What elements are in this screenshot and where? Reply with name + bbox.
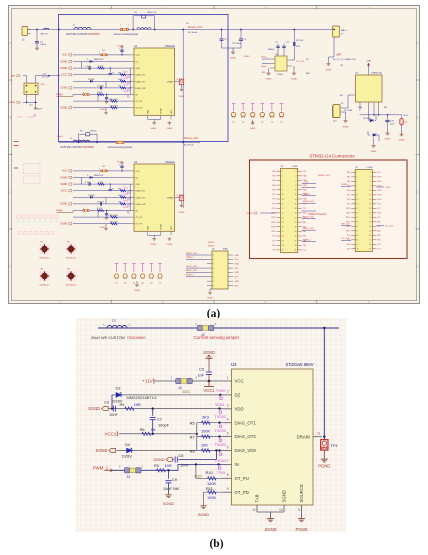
svg-text:2: 2 [296, 171, 297, 173]
svg-text:(b): (b) [209, 538, 223, 550]
svg-text:PC6: PC6 [272, 236, 275, 238]
svg-text:R10: R10 [206, 470, 214, 475]
svg-text:28: 28 [369, 231, 371, 233]
wire DIAG_VD8 row with zener D4 [116, 450, 222, 452]
svg-text:20: 20 [369, 213, 371, 215]
svg-text:PC7: PC7 [303, 208, 306, 210]
svg-text:PGND: PGND [167, 128, 173, 130]
svg-text:3: 3 [282, 176, 283, 178]
svg-text:6: 6 [370, 181, 371, 183]
svg-text:SGND: SGND [198, 512, 210, 517]
svg-text:SWCLK: SWCLK [208, 246, 215, 248]
svg-text:PA3: PA3 [272, 184, 275, 187]
svg-text:2: 2 [128, 25, 129, 27]
net label Shunt+_Ch1 [188, 26, 203, 34]
svg-text:24: 24 [369, 222, 371, 224]
svg-text:TVD02: TVD02 [123, 78, 129, 80]
svg-text:PB14: PB14 [271, 226, 275, 228]
svg-text:25: 25 [282, 227, 284, 229]
net arrow +BAT above buck [367, 63, 370, 66]
svg-text:31: 31 [282, 240, 284, 242]
svg-text:NL_Shunt2: NL_Shunt2 [184, 144, 193, 147]
test points TP8-TP13 row [114, 264, 162, 293]
wire DZ row [112, 394, 223, 396]
svg-text:PB13: PB13 [271, 222, 275, 224]
svg-text:15: 15 [282, 203, 284, 205]
net label Shunt+_Ch2 [184, 137, 199, 147]
svg-text:SGND: SGND [153, 457, 165, 462]
port and wire to PS1 input [10, 74, 27, 83]
svg-text:19: 19 [282, 213, 284, 215]
svg-text:VCC1: VCC1 [61, 190, 68, 193]
resistor R11 100K [206, 486, 216, 500]
svg-text:OT_PD: OT_PD [235, 490, 249, 495]
svg-text:PA1: PA1 [347, 176, 350, 179]
svg-text:TP1: TP1 [331, 443, 339, 448]
svg-text:8: 8 [370, 186, 371, 188]
svg-text:PB13: PB13 [377, 190, 381, 192]
svg-text:27: 27 [356, 231, 358, 233]
inductor L1 panel b [103, 319, 131, 329]
svg-text:B: B [417, 115, 419, 119]
power port VCC1 below wire [203, 381, 215, 393]
svg-text:PB12: PB12 [271, 217, 275, 219]
svg-text:10nF: 10nF [109, 412, 118, 417]
shunt sense loop R1 channel 1 [132, 12, 156, 30]
svg-text:M3 Mount: M3 Mount [40, 257, 50, 260]
svg-text:SGND: SGND [282, 490, 287, 502]
svg-text:22: 22 [369, 217, 371, 219]
svg-text:16: 16 [295, 203, 297, 205]
connector J8 STM32 header [271, 166, 307, 253]
svg-text:C4: C4 [275, 42, 277, 44]
svg-text:+11V: +11V [62, 170, 68, 173]
svg-text:10R: 10R [165, 463, 172, 468]
svg-text:OT_PU: OT_PU [136, 217, 143, 219]
svg-text:PB10: PB10 [303, 176, 307, 178]
svg-text:PWM_1: PWM_1 [93, 465, 109, 470]
svg-text:DZ: DZ [235, 393, 241, 398]
connector J6 debug header [207, 249, 233, 289]
svg-text:+11V: +11V [42, 74, 47, 76]
svg-text:8: 8 [296, 185, 297, 187]
svg-text:CONN: CONN [292, 166, 298, 168]
svg-text:NL_7V_TO_CONNECTOR: NL_7V_TO_CONNECTOR [333, 59, 356, 61]
port and wire PS1 ground side [9, 94, 43, 110]
svg-text:D3: D3 [116, 386, 121, 391]
svg-text:16: 16 [369, 204, 371, 206]
svg-text:Current sensing jumper: Current sensing jumper [114, 33, 139, 36]
svg-text:13: 13 [356, 199, 358, 201]
svg-text:18: 18 [369, 208, 371, 210]
svg-text:SGND: SGND [385, 139, 391, 141]
junction and suppressor on IN row [215, 459, 226, 470]
svg-text:DZ1: DZ1 [195, 473, 203, 478]
svg-text:SGND: SGND [266, 79, 272, 81]
svg-text:DIAG_OT1: DIAG_OT1 [235, 420, 257, 425]
svg-text:VDD: VDD [136, 184, 141, 186]
svg-text:6: 6 [296, 180, 297, 182]
svg-text:4: 4 [213, 268, 214, 270]
svg-text:15: 15 [356, 204, 358, 206]
svg-text:13: 13 [282, 199, 284, 201]
svg-text:PC6: PC6 [347, 235, 350, 237]
svg-text:PB0: PB0 [377, 240, 380, 242]
panel b grid background [76, 318, 346, 532]
ferrite bead FB1 [41, 28, 49, 36]
wire OT_PD row [204, 491, 223, 493]
wire OT_PU row [196, 477, 223, 479]
svg-text:3: 3 [227, 404, 229, 408]
svg-text:34: 34 [295, 245, 297, 247]
svg-text:SGND: SGND [60, 176, 67, 179]
svg-text:J4: J4 [178, 386, 182, 390]
svg-text:DIAG_VD8: DIAG_VD8 [136, 87, 147, 90]
decoupling caps above op-amp [275, 42, 289, 57]
svg-text:PB12: PB12 [303, 185, 307, 187]
svg-text:MISO_CH1: MISO_CH1 [186, 270, 198, 272]
svg-text:VDD: VDD [235, 406, 244, 411]
schematic sheet border panel a [9, 6, 420, 304]
wire IN row [113, 464, 223, 470]
svg-text:5: 5 [213, 272, 214, 274]
svg-text:CONN: CONN [367, 167, 373, 169]
svg-text:100K: 100K [201, 429, 210, 434]
wire sense tap 2 with label [292, 29, 305, 63]
svg-text:R8: R8 [190, 448, 196, 453]
svg-text:PA2: PA2 [272, 179, 275, 182]
svg-text:7: 7 [227, 459, 229, 463]
svg-text:C14: C14 [29, 105, 32, 107]
svg-text:9: 9 [227, 487, 229, 491]
svg-text:C 10nF: C 10nF [85, 182, 92, 184]
svg-text:D DZ8V: D DZ8V [88, 79, 95, 81]
svg-text:TAB: TAB [255, 494, 260, 502]
wire VCC row [155, 380, 223, 382]
port SGND on C8 row [153, 457, 172, 462]
resistor R7 100K [190, 429, 211, 440]
svg-text:26: 26 [369, 226, 371, 228]
micro labels around U1 [83, 45, 129, 107]
svg-text:30: 30 [295, 236, 297, 238]
svg-text:34: 34 [369, 244, 371, 246]
svg-text:PC6: PC6 [377, 204, 380, 206]
svg-text:100nF: 100nF [277, 74, 283, 76]
svg-text:10nF NM: 10nF NM [163, 486, 179, 491]
grounds below op-amp U3 [266, 66, 298, 81]
svg-text:SGND: SGND [100, 109, 106, 111]
svg-text:R11 100K: R11 100K [110, 105, 119, 107]
svg-text:MMSZ5233: MMSZ5233 [94, 175, 103, 177]
faint rule directives left margin [17, 114, 59, 235]
wire drain vertical panel b [323, 327, 325, 437]
svg-text:100nF: 100nF [40, 44, 47, 46]
svg-text:SOURCE: SOURCE [299, 484, 304, 503]
svg-text:C7: C7 [157, 416, 162, 421]
svg-text:SGND: SGND [246, 213, 253, 215]
gate driver IC U1 [129, 45, 175, 120]
svg-text:11: 11 [356, 195, 358, 197]
svg-text:OT_PU: OT_PU [136, 101, 143, 103]
svg-text:4: 4 [227, 418, 229, 422]
svg-text:J: J [99, 169, 100, 171]
svg-text:PC5: PC5 [347, 204, 350, 206]
wire pullup bus vertical [196, 423, 198, 451]
svg-text:SGND: SGND [291, 79, 297, 81]
svg-text:SRC: SRC [171, 109, 173, 114]
svg-text:3K3: 3K3 [118, 72, 121, 74]
op-amp U3 current sense amplifier [262, 54, 292, 71]
svg-text:SCLK_CH1: SCLK_CH1 [186, 266, 198, 268]
test point TP1 [321, 437, 339, 450]
svg-text:PB0: PB0 [272, 189, 275, 191]
svg-text:17: 17 [356, 208, 358, 210]
net label TVD03 and suppressor [215, 443, 226, 456]
svg-text:22uF: 22uF [390, 124, 395, 126]
svg-text:GND: GND [235, 255, 240, 257]
svg-text:SGND: SGND [264, 527, 276, 532]
svg-text:5: 5 [356, 181, 357, 183]
wire PS1 output +11V [36, 74, 61, 84]
STM32-G4 Connectors red box [250, 160, 408, 259]
svg-text:L1: L1 [112, 319, 116, 323]
svg-text:Shunt+_Ch1: Shunt+_Ch1 [188, 26, 203, 29]
port PWM_1 [93, 465, 113, 472]
svg-text:OT_PD: OT_PD [136, 224, 143, 226]
svg-text:PB11: PB11 [377, 181, 381, 183]
svg-text:NL_Shunt1: NL_Shunt1 [188, 31, 197, 34]
svg-text:MMSZ5233BT1G: MMSZ5233BT1G [127, 395, 157, 400]
svg-text:R10 100K: R10 100K [110, 99, 119, 101]
svg-text:SGND: SGND [151, 128, 157, 130]
svg-text:SGND: SGND [151, 244, 157, 246]
wire DIAG_OT2 row [197, 436, 223, 438]
wire channel-2 battery rail [59, 141, 200, 143]
ground symbols below U2 [148, 235, 173, 246]
svg-text:100nF: 100nF [37, 109, 43, 111]
wires into debug connector J6 [186, 253, 239, 300]
junction at drain pin [323, 436, 325, 438]
jumper J4 [176, 378, 193, 389]
svg-text:20uH WE CUSTOM: 20uH WE CUSTOM [91, 336, 125, 340]
svg-text:R 10R: R 10R [98, 66, 104, 68]
svg-text:22: 22 [295, 217, 297, 219]
svg-text:PB15: PB15 [346, 231, 350, 233]
buck regulator IC U4 [352, 60, 383, 107]
svg-text:IN: IN [235, 462, 239, 467]
svg-text:PA0: PA0 [347, 171, 350, 174]
svg-text:PC4: PC4 [303, 250, 306, 252]
svg-text:PC7: PC7 [272, 240, 275, 242]
svg-text:TAB: TAB [146, 109, 149, 113]
svg-text:R 10R: R 10R [98, 182, 104, 184]
isolated DC-DC module PS1 [24, 83, 46, 94]
svg-text:7: 7 [282, 185, 283, 187]
svg-text:0R005: 0R005 [91, 131, 98, 133]
svg-text:PA2: PA2 [347, 180, 350, 183]
svg-text:M3 Mount: M3 Mount [66, 284, 76, 287]
svg-text:+3V3: +3V3 [303, 181, 309, 183]
svg-text:OT_PD: OT_PD [136, 108, 143, 110]
svg-text:D: D [417, 264, 419, 268]
svg-text:VCC1: VCC1 [203, 388, 215, 393]
svg-text:TVD03: TVD03 [215, 443, 226, 447]
svg-text:PC4: PC4 [272, 199, 275, 201]
svg-text:SRC: SRC [171, 225, 173, 230]
inductor L1 channel 1 20uH [73, 24, 91, 29]
svg-text:9: 9 [282, 190, 283, 192]
resistor R4 [120, 402, 141, 410]
svg-text:R6: R6 [140, 427, 145, 432]
svg-text:PGND: PGND [167, 244, 173, 246]
resistor R10 100K [206, 470, 226, 486]
svg-text:SGND: SGND [60, 67, 67, 70]
mounting hole H4 [66, 268, 76, 286]
svg-text:DZ1: DZ1 [183, 389, 191, 394]
svg-text:17: 17 [282, 208, 284, 210]
svg-text:C10 100nF: C10 100nF [232, 43, 242, 45]
power port +11V [142, 378, 154, 383]
labels at op-amp inputs [261, 56, 283, 77]
passive components around U1 [83, 46, 126, 115]
wires and net labels between STM32 headers [246, 175, 394, 241]
svg-text:1: 1 [120, 25, 121, 27]
svg-text:10: 10 [279, 508, 283, 512]
svg-text:35: 35 [356, 249, 358, 251]
svg-text:25: 25 [356, 226, 358, 228]
svg-text:PA1: PA1 [272, 175, 275, 178]
svg-text:PB15: PB15 [271, 231, 275, 233]
svg-text:14: 14 [295, 199, 297, 201]
svg-text:C11: C11 [340, 65, 343, 67]
svg-text:SGND: SGND [96, 448, 108, 453]
svg-text:DIAG_OT2: DIAG_OT2 [136, 196, 147, 199]
svg-text:R12 10K: R12 10K [296, 40, 304, 42]
svg-text:SGND: SGND [343, 126, 349, 128]
svg-text:SGND: SGND [326, 70, 332, 72]
svg-text:PA2: PA2 [303, 230, 306, 233]
svg-text:R9: R9 [154, 463, 159, 468]
svg-text:SWDIO: SWDIO [208, 242, 215, 244]
svg-text:Current sensing jumper: Current sensing jumper [194, 335, 240, 340]
ground PGND below TP1 [318, 450, 330, 469]
svg-text:R4: R4 [120, 402, 126, 407]
resistor R8 10K [190, 442, 210, 453]
svg-text:2: 2 [227, 390, 229, 394]
connector J7 battery input [333, 26, 349, 37]
svg-text:STi2GaN 650V: STi2GaN 650V [285, 362, 313, 367]
svg-text:+BAT: +BAT [336, 54, 343, 57]
svg-text:29: 29 [282, 236, 284, 238]
svg-text:5: 5 [282, 180, 283, 182]
svg-text:6: 6 [213, 277, 214, 279]
svg-text:PGND: PGND [179, 96, 185, 98]
drain wire and test point of U2 [175, 142, 185, 214]
svg-text:750319650: 750319650 [82, 146, 95, 149]
svg-text:C8 10nF: C8 10nF [97, 86, 105, 88]
svg-text:R11 100K: R11 100K [110, 221, 119, 223]
svg-text:R13: R13 [262, 72, 265, 74]
svg-text:DZ8V: DZ8V [122, 454, 132, 459]
svg-text:VCC: VCC [136, 171, 141, 173]
svg-text:DRAIN: DRAIN [167, 80, 174, 83]
svg-text:3V3: 3V3 [347, 249, 350, 251]
svg-text:36: 36 [295, 250, 297, 252]
svg-text:3K3: 3K3 [118, 188, 121, 190]
svg-text:MOSI_CH1: MOSI_CH1 [303, 201, 314, 203]
svg-text:SGND: SGND [371, 151, 377, 153]
svg-text:Shunt-: Shunt- [261, 65, 267, 68]
svg-text:VCC1: VCC1 [61, 74, 68, 77]
svg-text:PA3: PA3 [377, 234, 380, 237]
svg-text:SGND: SGND [342, 184, 349, 186]
wire VCC1 row with resistor R6 [119, 433, 197, 435]
svg-text:R7: R7 [190, 435, 196, 440]
connector J10 right edge [333, 105, 340, 123]
svg-text:14: 14 [369, 199, 371, 201]
svg-text:MOSI_CH1: MOSI_CH1 [186, 253, 198, 255]
svg-text:TVD04: TVD04 [123, 91, 129, 93]
mounting hole H2 [66, 241, 76, 259]
svg-text:PB1: PB1 [303, 245, 306, 247]
svg-text:STi2GaN: STi2GaN [165, 161, 175, 164]
svg-text:S: S [298, 508, 300, 512]
svg-text:3: 3 [213, 264, 214, 266]
input ports U2 [57, 170, 74, 226]
svg-text:GND: GND [235, 272, 240, 274]
shunt sense loop R2 channel 2 [78, 131, 98, 144]
svg-text:SGND: SGND [161, 107, 163, 113]
svg-text:SPI_CS: SPI_CS [342, 223, 350, 225]
svg-text:1%: 1% [186, 23, 189, 25]
svg-text:2: 2 [370, 172, 371, 174]
net label TVD01 and suppressor [215, 415, 226, 428]
svg-text:SGND: SGND [399, 140, 405, 142]
ground SGND above C5 [203, 350, 215, 361]
svg-text:0R005 1%: 0R005 1% [147, 12, 157, 14]
channel-1 grouping rectangle (blue) [59, 15, 229, 142]
svg-text:PC5: PC5 [303, 171, 306, 173]
svg-text:36: 36 [369, 249, 371, 251]
svg-text:C9: C9 [172, 477, 177, 482]
svg-text:23: 23 [282, 222, 284, 224]
svg-text:20uH WE CUSTOM: 20uH WE CUSTOM [60, 146, 81, 149]
svg-text:PA0: PA0 [303, 221, 306, 224]
svg-text:SGND: SGND [60, 87, 67, 90]
svg-text:D4: D4 [125, 442, 131, 447]
svg-text:J: J [83, 208, 84, 210]
passive components around U2 [83, 162, 126, 231]
svg-text:TVD01: TVD01 [123, 71, 129, 73]
junction and suppressor marker DZ row [216, 389, 225, 399]
svg-text:SGND: SGND [207, 298, 213, 300]
svg-text:+11V: +11V [62, 54, 68, 57]
port SGND on DIAG_VD8 row [96, 448, 116, 453]
svg-text:3V3: 3V3 [272, 250, 275, 252]
buck output rail +3V3 [360, 106, 409, 117]
svg-text:21: 21 [356, 217, 358, 219]
svg-text:J: J [99, 53, 100, 55]
svg-text:SGND: SGND [60, 203, 67, 206]
svg-text:100K: 100K [207, 495, 216, 500]
svg-text:1K: 1K [151, 427, 156, 432]
capacitor C7 [150, 407, 170, 433]
wire +BAT net from J7 [326, 29, 356, 72]
svg-text:6: 6 [227, 445, 229, 449]
capacitor C5 [197, 361, 212, 382]
svg-text:32: 32 [369, 240, 371, 242]
svg-text:TVD0: TVD0 [216, 389, 225, 393]
